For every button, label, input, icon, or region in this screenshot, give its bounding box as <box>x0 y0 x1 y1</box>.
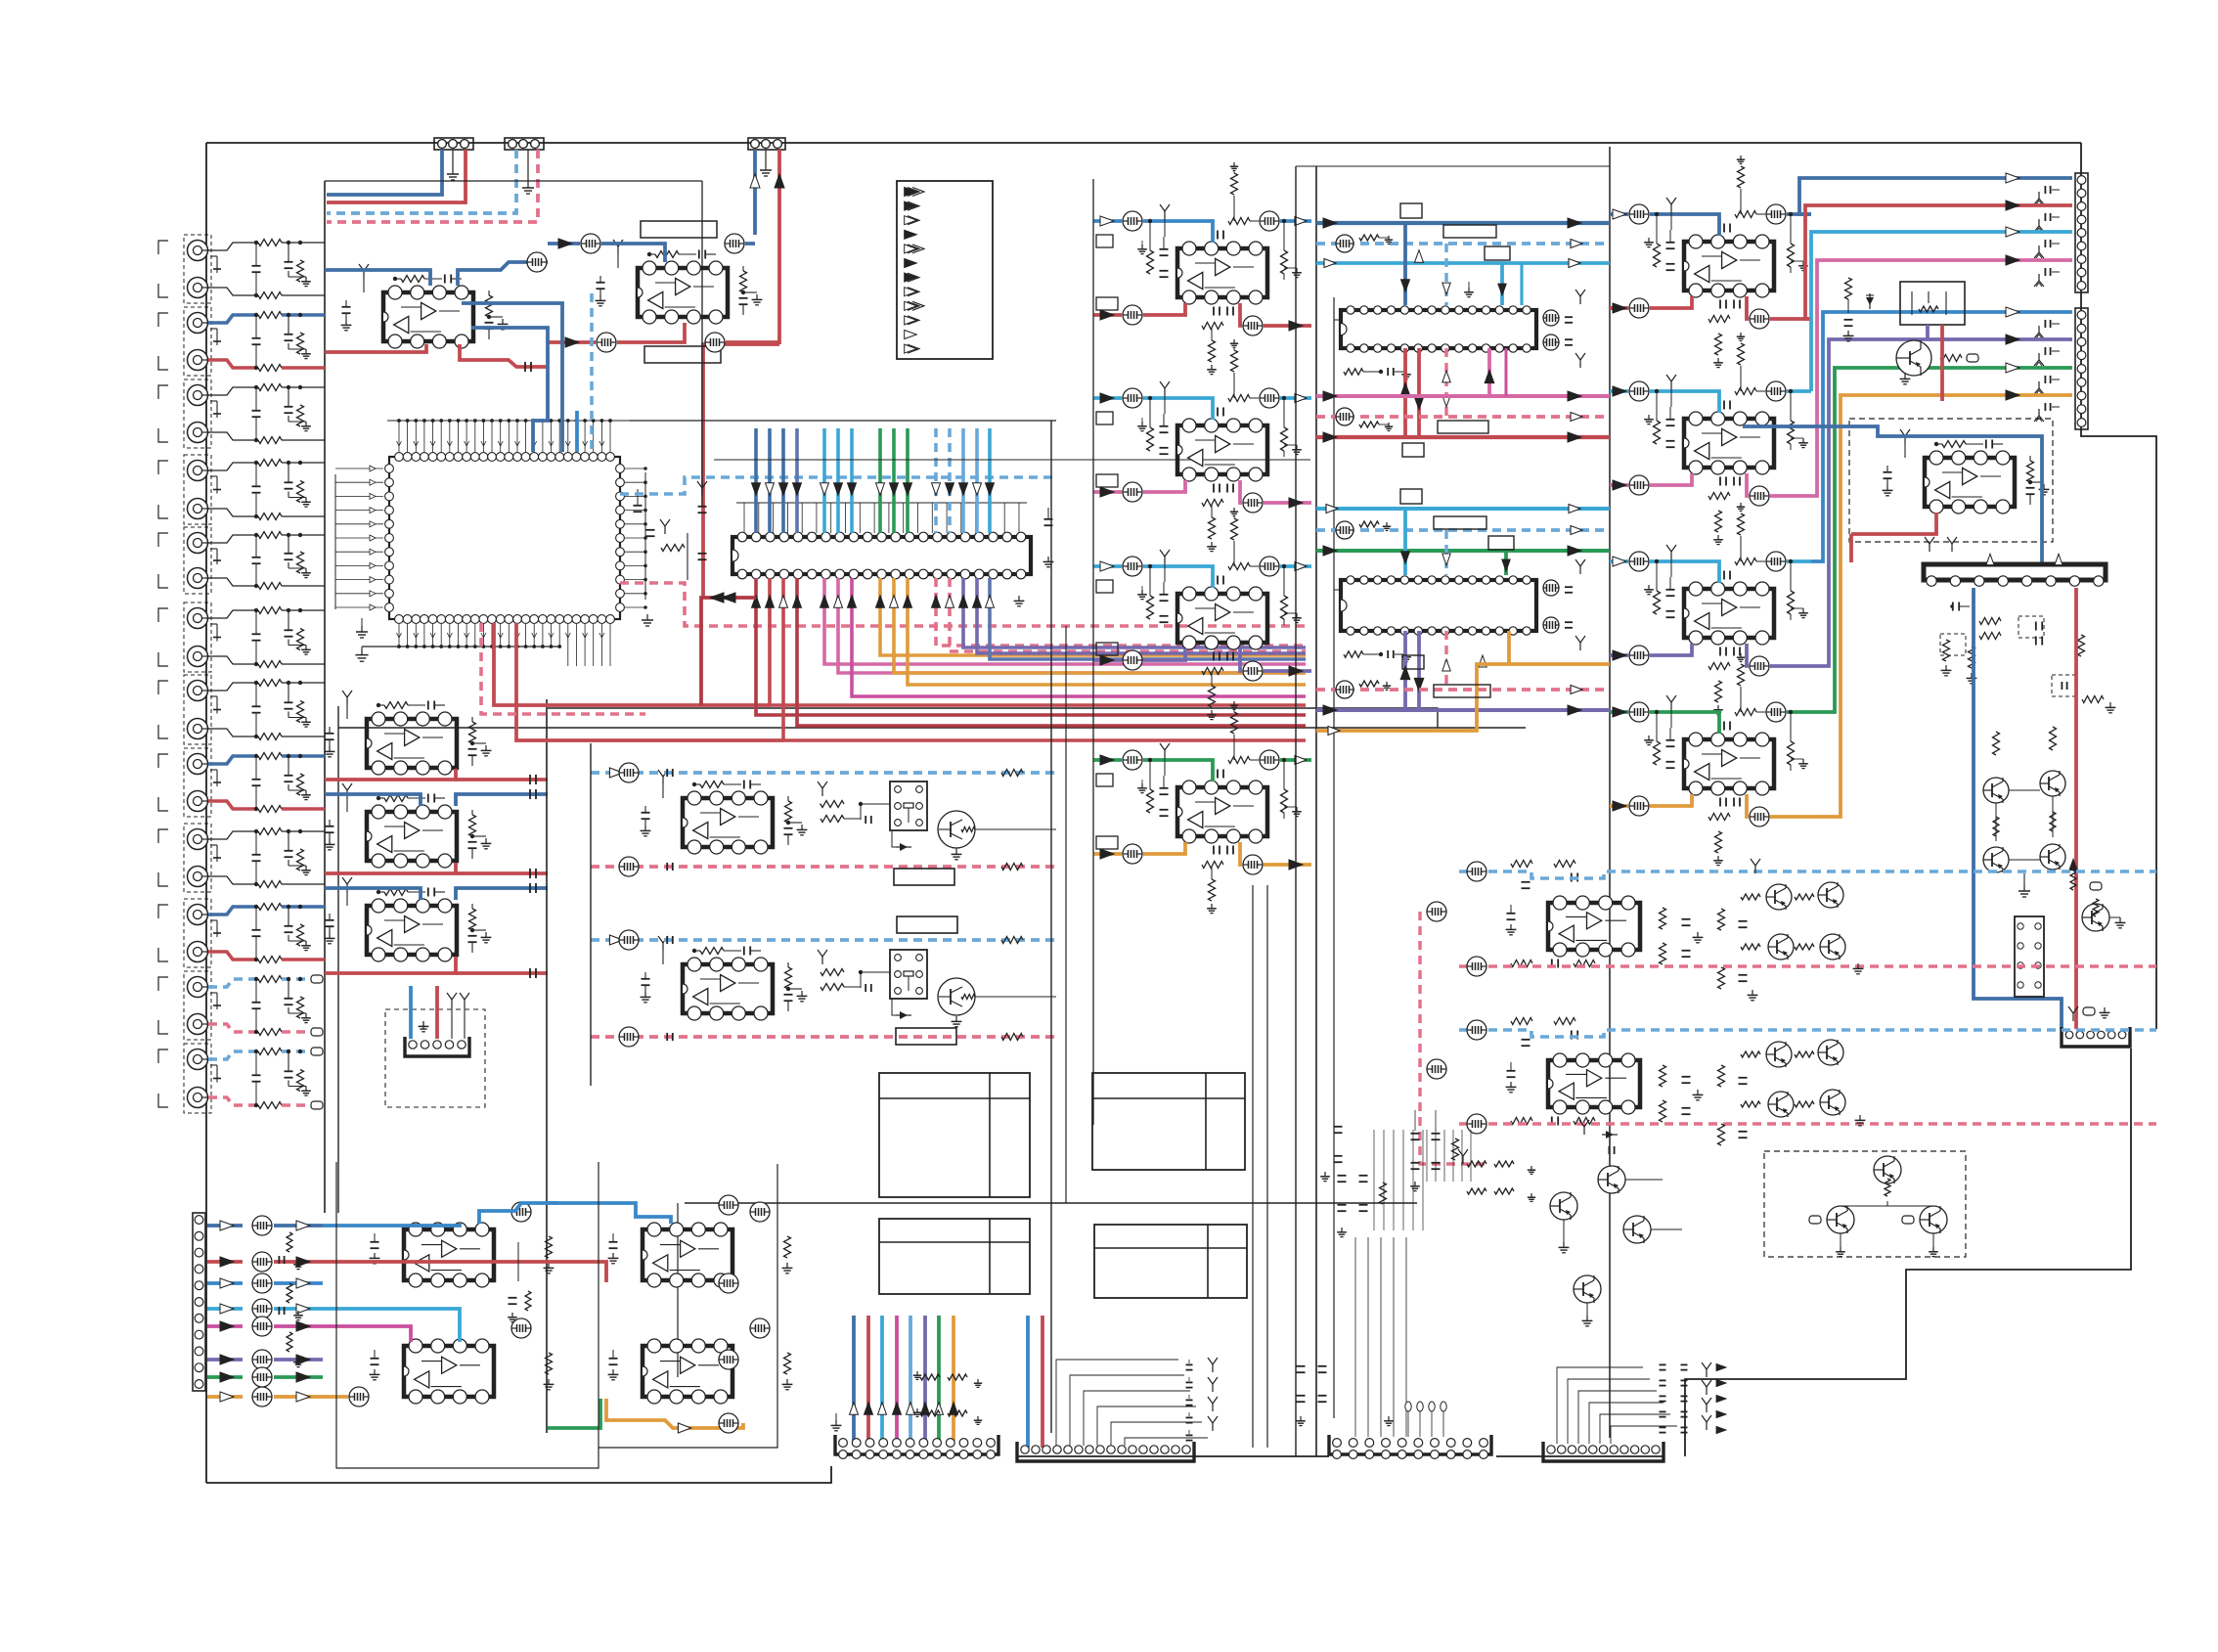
capacitor filter J2b <box>252 313 261 370</box>
wire orange UB out <box>606 1399 743 1428</box>
capacitor filter J3b <box>252 385 261 442</box>
wire bottom link C2-C3 <box>1194 1455 1329 1457</box>
wire CN105 out2 4 <box>274 1324 323 1328</box>
legend arrow 8 <box>905 288 919 296</box>
resistor U802 top <box>1228 395 1259 402</box>
wire red CN104 <box>435 986 439 1039</box>
wire bus col above U701 15 <box>988 428 992 533</box>
arrow bundle 7 <box>950 1403 958 1415</box>
connector RCA J12B <box>188 1088 211 1108</box>
resistor filter J10 <box>297 905 304 946</box>
capacitor filter J10a <box>285 905 293 932</box>
capacitor U971 out <box>2026 488 2035 505</box>
wire input bot J6 <box>208 656 256 664</box>
capacitor U201 out <box>485 323 494 339</box>
capacitor circ U804 inL <box>1123 750 1142 770</box>
capacitor U804 l <box>1160 776 1169 816</box>
arrow Q921 <box>2069 859 2077 870</box>
wire outer border right lower <box>1685 1049 2131 1456</box>
capacitor U202 bypass <box>596 276 606 306</box>
wire dashedred drop U902 <box>1444 631 1447 690</box>
arrow U953 ol <box>1613 650 1626 660</box>
connector CN105 <box>193 1213 205 1391</box>
resistor U902 left <box>1344 650 1411 662</box>
capacitor circ CN105 5 <box>252 1350 272 1369</box>
capacitor marks dashed buses <box>667 769 673 1041</box>
ground U803 l <box>1137 586 1147 600</box>
resistor input bot J6 <box>258 661 282 668</box>
connector RCA J10A <box>188 905 211 925</box>
connector C3 <box>1329 1435 1491 1458</box>
capacitor U971 fb <box>1986 440 2003 449</box>
capacitor circ U953 outR <box>1750 656 1769 676</box>
capacitor circ UB4 o <box>750 1318 770 1338</box>
resistor U601 right <box>661 545 685 552</box>
arrow purple down b <box>1414 678 1424 691</box>
wire bus col below U701 10 <box>908 578 1306 685</box>
wire input top J6 <box>208 610 256 618</box>
arrow col 3 <box>779 483 788 496</box>
arrow C4 row <box>1716 1364 1726 1434</box>
connector RCA jack pair J4 box <box>158 455 211 524</box>
ground J12 shield <box>210 1065 221 1083</box>
ground J10 shield <box>210 920 221 937</box>
capacitor U303 out <box>468 936 477 953</box>
ground CN104 <box>419 1021 429 1032</box>
ground U802 l <box>1137 418 1147 431</box>
arrow col 14 <box>973 483 982 496</box>
capacitor U402 fb <box>744 947 761 956</box>
wire red U202 link <box>617 323 685 342</box>
resistor input bot J1 <box>258 292 282 299</box>
wire blue U202 link <box>601 244 665 262</box>
wire CN105 out 1 <box>207 1260 243 1264</box>
wire to CN902 <box>1811 232 2072 391</box>
wire input bot J9 <box>208 876 256 884</box>
ground J2 shield <box>210 329 221 345</box>
wire U801 o3 <box>1240 303 1242 326</box>
resistor U951 l <box>1654 212 1661 267</box>
wire CN105 out2 1 <box>274 1260 323 1264</box>
wire bus col above U701 14 <box>975 428 979 533</box>
connector RCA jack pair J7 box <box>158 675 211 744</box>
resistor U803 top <box>1228 563 1259 570</box>
capacitor circ U801 inR <box>1260 211 1279 231</box>
capacitor circ CN105 4 <box>252 1317 272 1336</box>
resistor K401 a <box>818 781 844 808</box>
capacitor U991 out <box>1682 919 1704 957</box>
resistor U201 out <box>486 290 493 319</box>
wire blue U202 out <box>745 242 755 246</box>
wire top J4 out <box>282 462 325 464</box>
box relay K901 <box>1900 282 1965 325</box>
arrow dashedred out <box>1571 413 1582 422</box>
wire bus col below U701 3 <box>783 578 1306 740</box>
wire input bot J11 out <box>282 1030 325 1034</box>
op-amp U954 <box>1684 733 1774 795</box>
capacitor U802 l <box>1160 414 1169 454</box>
resistor U954 top <box>1735 709 1765 716</box>
capacitor filter J4b <box>252 461 261 518</box>
capacitor U992 a <box>1506 1062 1517 1093</box>
transistor Q402 <box>938 978 1056 1015</box>
wire long h y1151 <box>685 1202 1417 1204</box>
wire purple relay stub <box>1926 325 1930 339</box>
wire red U201 out <box>460 344 548 367</box>
connector RCA jack pair J10 box <box>158 899 211 967</box>
box label U202 top <box>641 221 717 238</box>
wire orange drop U902 <box>1509 631 1610 664</box>
wire U953 out4 <box>1770 664 1811 668</box>
capacitor U803 l <box>1160 582 1169 622</box>
capacitor U801 l <box>1160 237 1169 277</box>
wire CN105 out 5 <box>207 1358 243 1362</box>
capacitor circ U803 inR <box>1260 557 1279 576</box>
ground filter J8 <box>288 784 311 800</box>
capacitor circ dr U902 <box>1336 681 1353 698</box>
arrow orange in <box>1328 727 1340 736</box>
box big bottom-left outline <box>336 1162 599 1468</box>
capacitor circ U951 outR <box>1750 309 1769 329</box>
IC U701 body <box>732 532 1031 579</box>
arrow col below 3 <box>779 596 788 608</box>
ground J3 shield <box>210 401 221 418</box>
legend arrow 2 <box>905 201 919 210</box>
ground U953 l <box>1644 585 1654 595</box>
transistor bank2 net <box>1741 1051 1865 1126</box>
ground U951 Y <box>1666 198 1676 230</box>
wire U802 out-top <box>1280 396 1311 400</box>
capacitor filter J3a <box>285 385 293 413</box>
capacitor filter J7b <box>252 681 261 738</box>
capacitor CN907 <box>2034 403 2060 422</box>
resistor U901 left <box>1344 368 1411 380</box>
capacitor circ U954 outR <box>1750 807 1769 826</box>
diode D931 <box>1579 1120 1618 1154</box>
capacitor circ dashedred <box>1336 408 1353 425</box>
ground U971 out <box>2030 482 2049 495</box>
connector RCA J5A <box>188 533 211 554</box>
ground J8 shield <box>210 770 221 786</box>
ground filter J2 <box>288 343 311 359</box>
legend arrow 11 <box>905 331 917 339</box>
wire red from CN101 <box>327 150 466 202</box>
arrow col below 8 <box>876 596 885 608</box>
ground filter J11 <box>288 1007 311 1023</box>
capacitor U951 l <box>1666 230 1675 270</box>
capacitor filter J11a <box>285 977 293 1005</box>
resistor input bot J10 <box>258 957 282 963</box>
capacitor C206 circ <box>705 333 725 352</box>
connector RCA J9B <box>188 867 211 887</box>
op-amp U804 <box>1177 781 1267 843</box>
wire input bot J10 out <box>282 958 325 961</box>
resistor pairs bottom <box>1458 1149 1535 1201</box>
connector RCA J9A <box>188 829 211 850</box>
capacitor U992 out <box>1682 1077 1704 1114</box>
wire input top J4 <box>208 463 256 470</box>
wire red UB1 out <box>323 1262 548 1282</box>
arrow CN105 b 2 <box>296 1278 310 1288</box>
arrow CN901 <box>2006 201 2019 210</box>
op-amp U992 <box>1548 1053 1640 1114</box>
capacitor circ U952 inR <box>1766 381 1786 401</box>
wire red relay stub2 <box>1940 325 1944 401</box>
capacitor C302 <box>530 789 536 799</box>
wire bus col below U701 15 <box>990 578 1306 659</box>
wire bot J3 out <box>282 439 325 441</box>
arrow U954 in <box>1613 707 1626 717</box>
arrow col below 2 <box>766 596 775 608</box>
wire red U301 out <box>325 769 548 780</box>
wire outer border top <box>206 142 2081 144</box>
ground U901 r <box>1575 290 1585 368</box>
wire U902 frame <box>1334 589 1341 591</box>
capacitor cluster C3a <box>1296 1366 1326 1426</box>
arrow col below 7 <box>848 596 857 608</box>
wire U953 in <box>1610 559 1628 563</box>
resistor input bot J2 <box>258 365 282 372</box>
connector RCA jack pair J9 box <box>158 824 211 892</box>
wire to CN905 <box>1811 339 2072 666</box>
wire input bot J8 out <box>282 807 325 811</box>
capacitor U804 ob <box>1214 846 1233 855</box>
arrow blue bus a <box>1323 218 1581 228</box>
wire U951 in <box>1610 212 1628 216</box>
wire bot J9 out <box>282 883 325 885</box>
wire bottom left long <box>206 1212 325 1214</box>
arrow U953 in <box>1613 557 1626 566</box>
connector CN102 <box>505 138 544 150</box>
arrow red left <box>710 593 735 603</box>
transistor Q94x net <box>1836 1201 1938 1257</box>
capacitor circ U802 inR <box>1260 388 1279 408</box>
arrow col below 5 <box>821 596 829 608</box>
capacitor circ U801 outR <box>1243 316 1263 335</box>
wire U953 out-top <box>1787 559 1811 563</box>
op-amp U952 <box>1684 412 1774 474</box>
ground U802 r <box>1284 445 1302 457</box>
resistor input top J7 <box>258 680 282 687</box>
arrow dashedred drop <box>1442 371 1450 407</box>
capacitor circ U802 outR <box>1243 493 1263 513</box>
wire red U971b <box>1851 513 1936 562</box>
capacitor U601 right1 <box>634 489 643 512</box>
resistor U953 ob <box>1708 663 1730 670</box>
arrow col 10 <box>904 483 912 496</box>
box label U401b <box>897 916 957 933</box>
wire bus col below U701 14 <box>977 578 1306 653</box>
wire blue right down <box>1974 588 2062 1029</box>
resistor U991 out <box>1660 908 1666 964</box>
ground U202 top <box>613 240 623 268</box>
resistor U953 r <box>1788 559 1795 614</box>
wire U954 out-top <box>1787 710 1811 714</box>
capacitor circ RB1 <box>1467 862 1486 1134</box>
arrow U802 ot <box>1295 394 1307 403</box>
wire dashed red RB2 <box>1459 1122 2156 1126</box>
connector RCA J2A <box>188 313 211 334</box>
transistor Q921 <box>2082 899 2109 931</box>
transistor bank1 <box>1766 882 1845 960</box>
wire dashed blue U902 <box>1316 528 1610 532</box>
resistor U802 r <box>1281 396 1288 451</box>
capacitor filter J9b <box>252 829 261 886</box>
wire input top J10 out <box>282 905 325 909</box>
resistor U952 l <box>1654 389 1661 444</box>
capacitor C305 <box>530 968 536 978</box>
arrow CN105 3 <box>220 1304 234 1314</box>
wire U954 o2 <box>1650 794 1692 806</box>
wire dashed blue U402 bus <box>591 938 1056 942</box>
resistor U401 fb <box>692 781 741 788</box>
ground q net <box>2018 873 2030 897</box>
capacitor U201 fb <box>445 275 462 284</box>
resistor filter J9 <box>297 829 304 871</box>
wire dashed red right QFP <box>620 583 1306 626</box>
diode D401 <box>892 830 911 851</box>
capacitor U401 out <box>784 828 793 845</box>
wire pink drop U901 <box>1487 348 1491 396</box>
wire U601 left fanout <box>335 466 383 610</box>
plug J12 bot <box>311 1101 323 1109</box>
IC U901 body <box>1341 306 1536 352</box>
op-amp U303 <box>367 899 457 961</box>
resistor U803 up <box>1230 508 1238 566</box>
wire blue UB1 in <box>323 1213 430 1226</box>
arrow CN105 b 0 <box>296 1221 310 1230</box>
wire U952 o2 <box>1650 473 1692 485</box>
connector RCA J4A <box>188 461 211 481</box>
capacitor U802 fb <box>1218 408 1223 417</box>
capacitor U953 ob <box>1720 647 1740 656</box>
IC U902 body <box>1341 576 1536 635</box>
wire C3 drop lines <box>1355 1237 1406 1437</box>
wire red drop U901 b <box>1417 348 1421 437</box>
wire CN105 out 6 <box>207 1375 243 1379</box>
wire orange UB4 <box>323 1395 411 1399</box>
resistor dr U902 <box>1359 681 1391 690</box>
ground U401 out <box>788 823 807 835</box>
capacitor UB1 <box>370 1233 380 1264</box>
resistor U803 r <box>1281 564 1288 619</box>
ground U402 top <box>658 936 668 964</box>
wire bot J6 out <box>282 663 325 665</box>
connector C4 <box>1543 1442 1663 1461</box>
resistor U201 fb <box>393 276 442 283</box>
arrow dashedred U902 <box>1442 659 1450 671</box>
box dashed bottom right <box>1764 1151 1966 1257</box>
arrow col 11 <box>932 483 941 496</box>
capacitor C301 <box>530 775 536 784</box>
resistor U952 up <box>1737 333 1745 391</box>
wire U952 out-top <box>1787 389 1811 393</box>
wire to CN900 <box>1799 178 2072 214</box>
resistor U953 top <box>1735 558 1765 565</box>
capacitor circ U803 inL <box>1123 557 1142 576</box>
wire CN104 stub1 <box>447 993 457 1039</box>
wire CN105 out 4 <box>207 1324 243 1328</box>
wire to CN903 <box>1811 260 2072 496</box>
resistor pairs bottom2 <box>913 1371 982 1424</box>
wire U804 out-top <box>1280 758 1311 762</box>
ground Q401 <box>952 848 962 860</box>
capacitor busbar2 <box>2036 622 2042 646</box>
ground U953 Y <box>1666 545 1676 577</box>
resistor filter J3 <box>297 385 304 426</box>
ground U951 r <box>1791 261 1808 273</box>
resistor UB3 o <box>782 1236 793 1273</box>
wire red CN103 drop <box>777 150 781 344</box>
resistor UB1 o <box>544 1236 554 1273</box>
box label U902 bot <box>1434 685 1490 697</box>
wire bus col above U701 3 <box>781 428 785 533</box>
arrow CN900 <box>2006 173 2019 183</box>
capacitor CN900 <box>2034 186 2060 204</box>
ground U302 out <box>472 836 491 849</box>
resistor U953 dn <box>1713 681 1723 715</box>
ground J11 shield <box>210 993 221 1009</box>
wire input bot J10 <box>208 952 256 960</box>
resistor input top J6 <box>258 607 282 614</box>
wire q net <box>1996 790 2053 860</box>
arrow U202 in red <box>565 337 579 347</box>
wire U953 o3 <box>1747 644 1749 666</box>
resistor filter J12 <box>297 1049 304 1092</box>
ground U804 r <box>1284 807 1302 819</box>
resistor U971 fb <box>1934 441 1983 448</box>
wire U803 o2 <box>1143 648 1185 660</box>
wire U803 in2 <box>1143 566 1213 588</box>
wire bus col below U701 2 <box>770 578 1306 705</box>
arrow green bus <box>1323 546 1581 556</box>
ground CN102 <box>522 150 534 194</box>
resistor U953 l <box>1654 559 1661 614</box>
wire input top J8 out <box>282 754 325 758</box>
capacitor filter J1b <box>252 241 261 297</box>
wire U701 top fan <box>736 503 1027 533</box>
resistor U951 ob <box>1708 316 1730 323</box>
wire cyan UB4 top <box>548 1319 626 1342</box>
wire red x719 drop <box>703 344 779 598</box>
wire U901 frame <box>1334 319 1341 321</box>
wire input bot J1 <box>208 288 256 295</box>
ground U303 out <box>472 930 491 943</box>
wire cyan drop U901 a <box>1500 263 1504 305</box>
wire outer border right upper <box>2081 143 2156 1029</box>
capacitor circ U801 outL <box>1123 305 1142 325</box>
ground J1 shield <box>210 256 221 273</box>
capacitor circ U954 inL <box>1629 702 1649 722</box>
resistor filter J1 <box>297 241 304 282</box>
wire outer border left <box>205 143 207 1483</box>
capacitor mid cluster <box>1410 1110 1458 1191</box>
wire bundle 2 <box>880 1316 884 1441</box>
wire mid long1 <box>685 420 1051 422</box>
resistor q net4 <box>2050 812 2056 831</box>
wire red UB3 mid <box>548 1262 685 1282</box>
wire top J9 out <box>282 830 325 832</box>
resistor K402 a <box>818 950 844 976</box>
resistor db U902 <box>1359 521 1391 530</box>
box small U901 top2 <box>1485 246 1510 260</box>
box label U802 b <box>1096 474 1118 487</box>
wire blue U303 in <box>325 888 421 900</box>
resistor input top J9 <box>258 828 282 835</box>
capacitor circ U953 outL <box>1629 646 1649 665</box>
resistor U952 dn <box>1713 511 1723 545</box>
wire U801 out4 <box>1264 324 1311 328</box>
